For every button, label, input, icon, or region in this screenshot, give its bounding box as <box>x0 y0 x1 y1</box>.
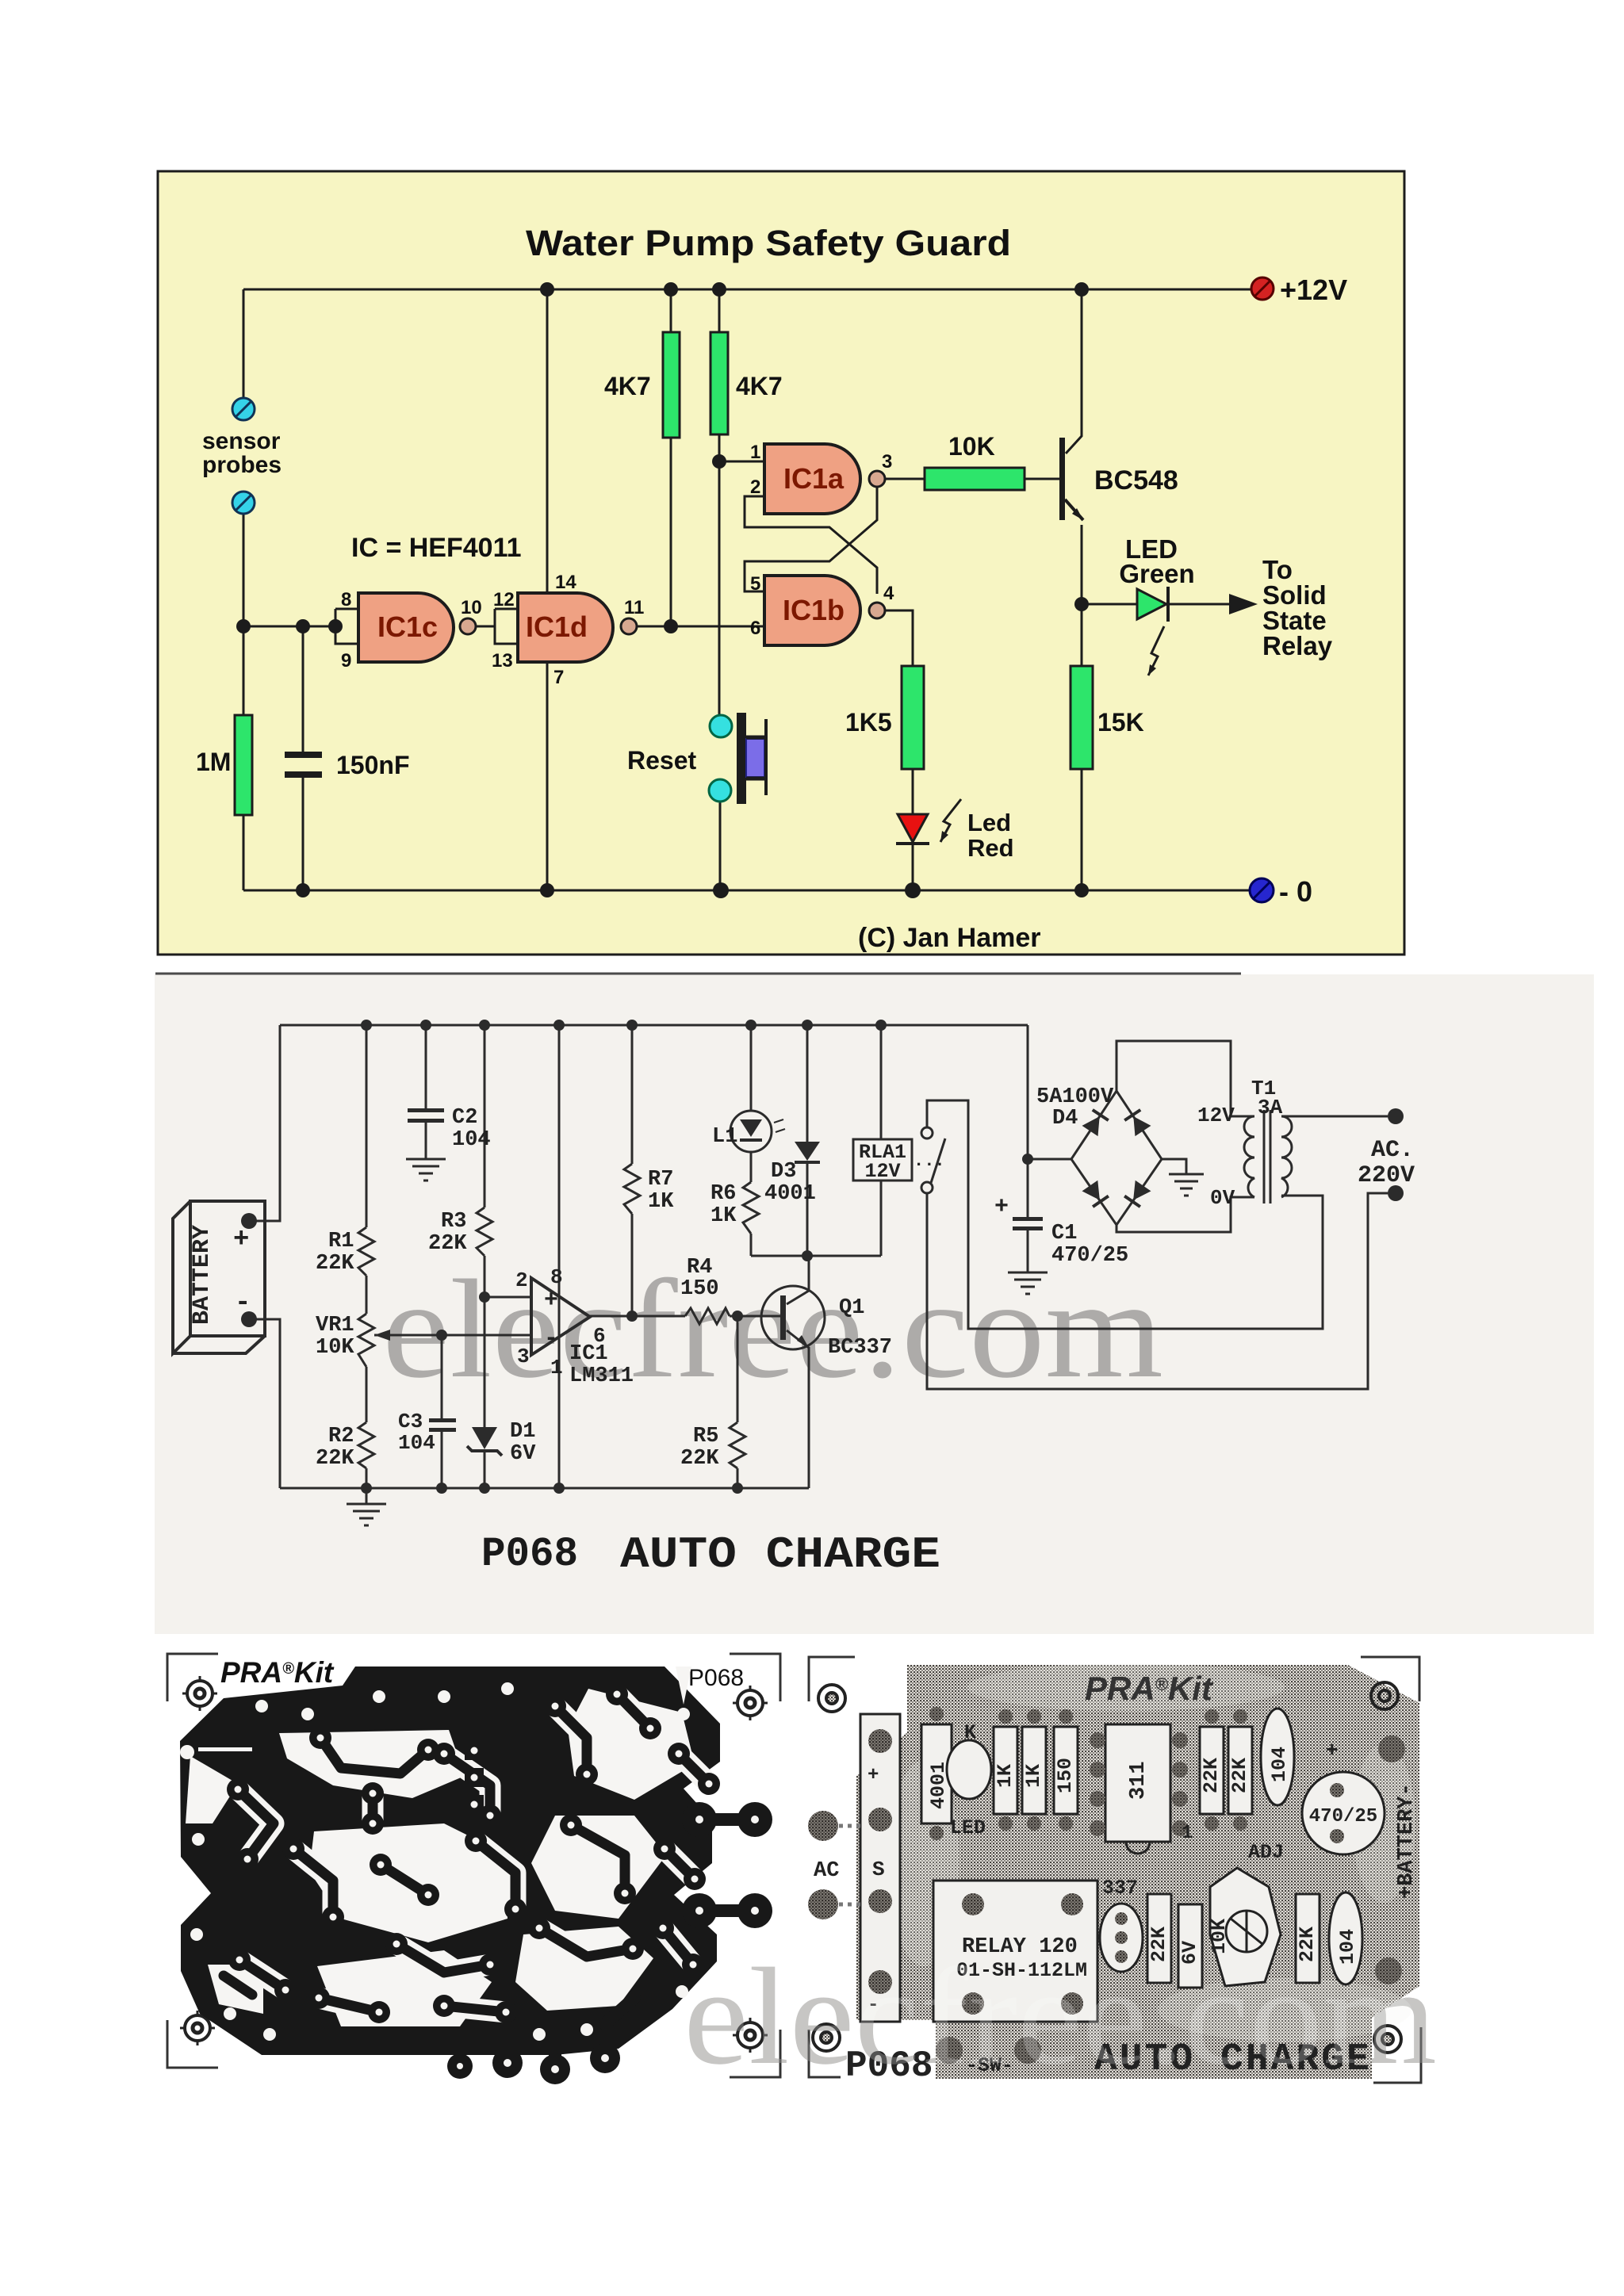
diode D3 <box>795 1142 820 1162</box>
svg-text:Q1: Q1 <box>839 1296 864 1320</box>
wire LED green cathode to arrow <box>1170 603 1229 606</box>
wire C3 <box>441 1335 443 1418</box>
ground at R2 <box>347 1488 386 1525</box>
svg-text:IC = HEF4011: IC = HEF4011 <box>351 533 522 563</box>
junction gnd IC1 pin1 <box>553 1483 565 1494</box>
svg-text:sensor: sensor <box>202 428 281 454</box>
svg-text:104: 104 <box>1268 1747 1291 1782</box>
junction gnd R2 <box>361 1483 372 1494</box>
svg-text:BC548: BC548 <box>1094 465 1178 496</box>
wire +12V top rail <box>243 289 1251 291</box>
wire probe2 to input node <box>243 514 245 626</box>
resistor R7 <box>624 1164 640 1214</box>
wire IC1d out to IC1b pin6 <box>637 626 764 628</box>
right pcb hole BL <box>813 2024 840 2051</box>
junction gnd C3 <box>436 1483 447 1494</box>
sensor probe terminal 1 <box>232 398 255 420</box>
right pcb hole TL <box>818 1685 845 1712</box>
svg-text:AUTO CHARGE: AUTO CHARGE <box>620 1529 940 1580</box>
svg-text:R2: R2 <box>328 1425 354 1448</box>
wire IC1a out to 10K <box>886 478 925 480</box>
wire left drop to sensor probes <box>243 289 245 398</box>
wire R7 <box>631 1025 634 1164</box>
resistor R1 <box>358 1227 374 1276</box>
wire red led to 0V <box>912 845 914 890</box>
wire 4K7a top <box>670 289 672 332</box>
svg-text:ADJ: ADJ <box>1248 1841 1284 1864</box>
left pcb corner bracket BR <box>730 2030 780 2077</box>
relay outline <box>933 1881 1097 2022</box>
junction +12V IC1d pin14 <box>540 282 554 297</box>
wire R3 <box>484 1025 486 1207</box>
wire top rail <box>280 1024 1028 1027</box>
wire reset to 0V <box>719 802 722 890</box>
wire 4K7b bottom to reset <box>718 434 721 715</box>
resistor 15K <box>1071 666 1093 769</box>
svg-text:(C) Jan Hamer: (C) Jan Hamer <box>858 923 1041 953</box>
svg-text:PRA®Kit: PRA®Kit <box>1085 1670 1214 1707</box>
left pcb dumbbell pads right side <box>699 1820 755 1911</box>
svg-text:VR1: VR1 <box>316 1314 354 1337</box>
svg-text:1K: 1K <box>710 1204 737 1228</box>
svg-text:22K: 22K <box>428 1232 467 1256</box>
capacitor C3 <box>429 1418 456 1432</box>
terminal 0 <box>1250 878 1274 902</box>
svg-text:10K: 10K <box>316 1336 354 1360</box>
resistor R6 <box>743 1182 759 1234</box>
svg-text:P068: P068 <box>688 1665 744 1691</box>
svg-text:3A: 3A <box>1258 1096 1283 1119</box>
svg-text:+: + <box>868 1765 879 1786</box>
resistor 4K7 b <box>710 332 728 434</box>
junction sensor input 150nF <box>296 619 310 633</box>
ground at C2 <box>406 1159 446 1181</box>
junction Vplus R3 <box>479 1020 490 1031</box>
svg-text:C2: C2 <box>452 1106 477 1130</box>
resistor 1K b <box>1022 1727 1046 1814</box>
svg-text:1K: 1K <box>1022 1764 1045 1788</box>
wire IC1d pin14 to +12V <box>546 289 549 593</box>
resistor 22K d <box>1296 1894 1319 1983</box>
svg-text:LM311: LM311 <box>569 1364 634 1388</box>
transformer T1 <box>1244 1110 1292 1203</box>
svg-text:12V: 12V <box>1197 1104 1235 1127</box>
junction C1 bridge <box>1022 1154 1033 1165</box>
svg-text:IC1b: IC1b <box>783 594 845 626</box>
transistor 337 <box>1100 1904 1143 1972</box>
wire switch bottom path to AC <box>927 1193 1388 1389</box>
svg-text:+: + <box>1326 1739 1339 1762</box>
resistor 10K <box>925 468 1025 490</box>
left pcb corner bracket TR <box>730 1654 780 1701</box>
trimmer 10K <box>1210 1868 1281 1986</box>
left pcb bottom pads <box>555 1998 634 2068</box>
junction Vplus IC1 pin8 <box>553 1020 565 1031</box>
right pcb corner bracket TR <box>1361 1657 1419 1701</box>
wire 15K bottom <box>1081 769 1083 890</box>
right pcb corner bracket BR <box>1373 2027 1421 2083</box>
wire BC548 collector to +12V <box>1066 289 1082 453</box>
arrow to relay <box>1229 594 1258 614</box>
relay coil RLA1 <box>853 1139 912 1181</box>
svg-text:D3: D3 <box>771 1160 796 1184</box>
wire coil bottom net <box>751 1255 881 1257</box>
svg-text:104: 104 <box>452 1128 491 1152</box>
resistor 22K a <box>1200 1727 1224 1814</box>
ic 311 <box>1105 1724 1170 1842</box>
svg-text:22K: 22K <box>1228 1758 1251 1793</box>
capacitor 104 a <box>1261 1709 1294 1805</box>
wire 1K5 to red led <box>912 769 914 814</box>
svg-text:104: 104 <box>398 1431 435 1455</box>
svg-text:5A100V: 5A100V <box>1036 1085 1114 1109</box>
junction R4 R5 <box>732 1311 743 1322</box>
wire C1 top <box>1027 1159 1029 1217</box>
zener 6V <box>1178 1904 1202 1988</box>
svg-text:470/25: 470/25 <box>1051 1244 1128 1268</box>
right pcb board dither background <box>856 1665 1419 2079</box>
svg-text:15K: 15K <box>1097 708 1144 737</box>
junction gnd D1 <box>479 1483 490 1494</box>
svg-text:BATTERY: BATTERY <box>189 1225 216 1325</box>
left pcb copper blob <box>180 1667 720 2055</box>
junction 0V IC1d pin7 <box>540 883 554 897</box>
wire bridge top to 12V tap <box>1116 1041 1247 1116</box>
svg-text:6: 6 <box>750 618 760 639</box>
junction gnd R5 <box>732 1483 743 1494</box>
wire 1M top <box>243 626 245 715</box>
resistor R5 <box>730 1422 745 1468</box>
wire battery plus <box>249 1025 280 1221</box>
junction sensor input 1M <box>236 619 251 633</box>
wire R5 drop <box>737 1316 739 1422</box>
terminal +12V <box>1251 277 1274 300</box>
svg-text:22K: 22K <box>680 1447 719 1471</box>
wire 4K7a bottom <box>670 438 672 626</box>
junction Vplus L1 <box>745 1020 756 1031</box>
svg-text:+: + <box>994 1194 1009 1221</box>
ground at bridge <box>1169 1174 1204 1196</box>
wire D3 bottom <box>806 1162 809 1256</box>
wire D3 top <box>806 1025 809 1142</box>
svg-text:4: 4 <box>883 583 894 604</box>
zener D1 <box>467 1427 502 1456</box>
svg-text:150: 150 <box>1054 1758 1077 1793</box>
svg-text:10K: 10K <box>948 432 995 461</box>
wire bridge bottom to 0V tap <box>1116 1197 1247 1232</box>
svg-text:8: 8 <box>550 1265 563 1289</box>
battery pads <box>1378 1735 1405 1762</box>
svg-text:+: + <box>544 1288 558 1314</box>
svg-text:R1: R1 <box>328 1230 354 1253</box>
resistor 1K a <box>994 1727 1017 1814</box>
svg-text:22K: 22K <box>316 1252 354 1276</box>
svg-text:P068: P068 <box>481 1531 578 1578</box>
scan top edge line <box>155 973 1241 975</box>
svg-text:11: 11 <box>624 597 644 618</box>
svg-text:+12V: +12V <box>1280 274 1347 306</box>
component 4001 <box>921 1724 952 1823</box>
svg-text:13: 13 <box>492 650 513 672</box>
resistor 1K5 <box>902 666 924 769</box>
junction +12V 4K7b <box>712 282 726 297</box>
svg-text:4K7: 4K7 <box>604 372 651 400</box>
led K <box>947 1740 991 1799</box>
svg-text:IC1d: IC1d <box>526 610 588 643</box>
wire L1 top <box>750 1025 753 1111</box>
led red <box>896 814 929 844</box>
capacitor 104 b <box>1329 1892 1362 1984</box>
svg-text:4K7: 4K7 <box>736 372 783 400</box>
AC pads <box>808 1811 838 1841</box>
left pcb ic pad squares <box>465 1741 484 1814</box>
svg-text:12: 12 <box>493 589 515 610</box>
svg-text:Water Pump Safety Guard: Water Pump Safety Guard <box>526 223 1011 263</box>
wire RLA1 bottom <box>880 1181 883 1256</box>
svg-text:PRA®Kit: PRA®Kit <box>220 1656 335 1689</box>
wire primary top to AC <box>1281 1115 1388 1118</box>
svg-text:R4: R4 <box>687 1256 712 1280</box>
left pcb mounting hole TL <box>182 1676 217 1711</box>
scanned image background <box>155 974 1594 1634</box>
right pcb corner bracket BL <box>809 2030 841 2077</box>
svg-text:10: 10 <box>461 597 482 618</box>
svg-text:C3: C3 <box>398 1410 423 1433</box>
wire 150nF top <box>302 626 304 752</box>
reset switch <box>709 713 768 804</box>
junction IC1d out 4K7a <box>664 619 678 633</box>
svg-text:- 0: - 0 <box>1279 875 1312 908</box>
bridge rectifier D4 <box>1071 1091 1162 1225</box>
svg-text:1: 1 <box>750 442 760 463</box>
wire bottom rail <box>280 1487 809 1490</box>
wire C2 <box>425 1025 427 1109</box>
svg-text:1K: 1K <box>648 1190 674 1214</box>
resistor 1M <box>235 715 252 815</box>
svg-text:LED: LED <box>950 1816 986 1839</box>
svg-text:IC1a: IC1a <box>783 462 845 495</box>
left pcb corner bracket BL <box>167 2020 218 2068</box>
nand gate IC1b <box>764 576 885 645</box>
svg-text:probes: probes <box>202 452 282 478</box>
svg-text:8: 8 <box>341 589 351 610</box>
wire rail corner to bridge <box>1028 1025 1071 1159</box>
resistor 22K b <box>1228 1727 1252 1814</box>
capacitor C1 <box>1013 1217 1043 1230</box>
svg-text:470/25: 470/25 <box>1309 1806 1377 1827</box>
junction IC1c inputs <box>328 619 343 633</box>
svg-text:22K: 22K <box>1200 1758 1223 1793</box>
wire Q1 collector <box>787 1256 809 1304</box>
svg-text:22K: 22K <box>316 1447 354 1471</box>
svg-text:1: 1 <box>1182 1823 1193 1844</box>
led green light arrow <box>1148 626 1164 675</box>
led red light arrow <box>940 799 961 842</box>
wire RLA1 top <box>880 1025 883 1139</box>
junction Vplus C2 <box>420 1020 431 1031</box>
svg-text:2: 2 <box>750 476 760 498</box>
ground at C1 <box>1008 1272 1048 1294</box>
wire 4K7b top <box>718 289 721 332</box>
wire IC1d input bar <box>495 608 518 610</box>
potentiometer VR1 <box>358 1314 374 1367</box>
resistor R3 <box>477 1207 492 1256</box>
svg-text:5: 5 <box>750 573 760 595</box>
nand gate IC1c <box>358 593 476 662</box>
right pcb hole TR <box>1371 1682 1398 1709</box>
wire R3 to D1 <box>484 1297 486 1427</box>
led L1 <box>730 1111 785 1152</box>
svg-text:K: K <box>964 1721 976 1744</box>
resistor R2 <box>358 1422 374 1468</box>
wire bridge right to ground <box>1162 1159 1186 1174</box>
junction +12V BC548 collector <box>1074 282 1089 297</box>
connector strip S <box>860 1714 900 2022</box>
wire R6 bottom <box>750 1234 753 1256</box>
svg-text:7: 7 <box>553 667 564 688</box>
AC terminals <box>1388 1108 1404 1124</box>
wire IC1a pin2 cross link <box>745 496 877 594</box>
svg-text:D1: D1 <box>510 1420 535 1444</box>
svg-text:1K: 1K <box>994 1764 1017 1788</box>
wire pin8 pin1 vertical <box>558 1025 561 1488</box>
led green <box>1137 587 1168 622</box>
wire switch top path to primary <box>927 1100 1323 1329</box>
left pcb standalone pads white-in-black <box>180 1682 707 2041</box>
right pcb corner bracket TL <box>809 1657 855 1701</box>
wire input node horizontal <box>243 626 335 628</box>
svg-text:Led: Led <box>967 809 1011 836</box>
svg-text:14: 14 <box>555 572 576 593</box>
svg-text:Red: Red <box>967 834 1014 862</box>
wire battery minus <box>249 1319 280 1488</box>
junction 0V led red <box>905 882 921 898</box>
svg-text:Reset: Reset <box>627 746 697 775</box>
svg-text:D4: D4 <box>1052 1107 1078 1131</box>
nand gate IC1d <box>518 593 637 662</box>
svg-text:Green: Green <box>1119 559 1194 588</box>
svg-text:3: 3 <box>882 451 892 473</box>
junction R7 output <box>626 1311 638 1322</box>
wire IC1a pin1 stub <box>719 461 764 463</box>
left pcb mounting hole BL <box>180 2011 215 2045</box>
svg-text:AC: AC <box>814 1859 839 1883</box>
svg-text:12V: 12V <box>864 1160 900 1183</box>
svg-text:+BATTERY-: +BATTERY- <box>1395 1783 1419 1899</box>
wire IC1c input bar <box>335 608 358 610</box>
svg-text:elecfree.com: elecfree.com <box>684 1939 1437 2093</box>
right pcb light patches <box>888 1663 1415 2042</box>
svg-text:150nF: 150nF <box>336 751 409 779</box>
svg-text:1K5: 1K5 <box>845 708 892 737</box>
junction 0V 15K <box>1074 883 1089 897</box>
wire BC548 emitter down <box>1081 525 1083 666</box>
left pcb trace end pads <box>227 1683 720 2023</box>
wire LED green anode <box>1082 603 1137 606</box>
wire R4 to Q1 base <box>730 1315 782 1318</box>
wire 0V bottom rail <box>243 890 1251 892</box>
capacitor 470/25 <box>1302 1772 1385 1854</box>
svg-text:150: 150 <box>680 1277 719 1301</box>
svg-text:3: 3 <box>517 1345 530 1368</box>
wire IC1c out to IC1d in <box>476 626 495 628</box>
resistor R4 <box>685 1308 730 1324</box>
opamp IC1 LM311 <box>531 1278 590 1355</box>
nand gate IC1a <box>764 444 885 514</box>
wire 1M bottom <box>243 815 245 890</box>
svg-text:+: + <box>233 1225 249 1255</box>
svg-text:1M: 1M <box>196 748 231 776</box>
svg-text:4001: 4001 <box>764 1182 816 1206</box>
svg-text:R7: R7 <box>648 1168 673 1192</box>
transistor Q1 <box>761 1286 825 1349</box>
left pcb channel traces <box>224 1694 709 2012</box>
junction D3 Q1 collector <box>802 1250 813 1261</box>
wire opamp output to R4 <box>590 1315 685 1318</box>
junction 4K7b IC1a pin1 reset <box>712 454 726 469</box>
svg-text:IC1c: IC1c <box>377 610 438 643</box>
wire 150nF bottom <box>302 778 304 890</box>
junction Vplus RLA1 <box>875 1020 887 1031</box>
sensor probe terminal 2 <box>232 492 255 514</box>
junction C3 minus input <box>436 1330 447 1341</box>
svg-text:BC337: BC337 <box>828 1336 892 1360</box>
capacitor 150nF <box>285 752 322 778</box>
left pcb white islands <box>186 1667 695 2026</box>
svg-text:IC1: IC1 <box>569 1342 608 1366</box>
svg-text:337: 337 <box>1102 1877 1138 1900</box>
junction 0V reset <box>713 882 729 898</box>
wire Q1 emitter <box>787 1330 809 1488</box>
resistor 4K7 a <box>663 332 680 438</box>
svg-text:2: 2 <box>515 1269 528 1292</box>
resistor 150 <box>1054 1727 1078 1814</box>
left pcb mounting hole TR <box>733 1686 768 1720</box>
svg-text:-: - <box>544 1326 558 1353</box>
svg-text:S: S <box>872 1858 885 1881</box>
right pcb hole BR <box>1374 2026 1401 2053</box>
yellow schematic panel background <box>158 171 1404 955</box>
svg-text:220V: 220V <box>1358 1162 1415 1189</box>
junction BC548 emitter LED green <box>1074 597 1089 611</box>
junction Vplus R1 <box>361 1020 372 1031</box>
wire opamp plus input <box>485 1296 531 1299</box>
junction 0V 150nF <box>296 883 310 897</box>
left pcb corner bracket TL <box>167 1654 218 1701</box>
wire L1 to R6 <box>750 1152 753 1182</box>
capacitor C2 <box>408 1108 444 1123</box>
svg-text:9: 9 <box>341 650 351 672</box>
svg-text:R6: R6 <box>710 1182 736 1206</box>
svg-text:1: 1 <box>550 1356 563 1380</box>
resistor 22K c <box>1147 1894 1171 1983</box>
wire C1 bottom <box>1027 1230 1029 1272</box>
battery <box>173 1201 265 1353</box>
svg-text:311: 311 <box>1127 1761 1151 1800</box>
wire 10K to BC548 base <box>1025 478 1061 480</box>
svg-text:AC.: AC. <box>1371 1137 1414 1164</box>
svg-text:0V: 0V <box>1210 1186 1235 1210</box>
junction Vplus R7 <box>626 1020 638 1031</box>
svg-text:C1: C1 <box>1051 1222 1077 1246</box>
svg-text:R5: R5 <box>693 1425 718 1448</box>
relay switch <box>921 1127 945 1193</box>
wire opamp minus input from VR1 wiper <box>374 1334 531 1337</box>
svg-text:Relay: Relay <box>1262 631 1333 660</box>
junction Vplus D3 <box>802 1020 813 1031</box>
wire divider chain R1 VR1 R2 <box>366 1025 368 1227</box>
wire IC1d pin7 to 0V <box>546 662 549 890</box>
